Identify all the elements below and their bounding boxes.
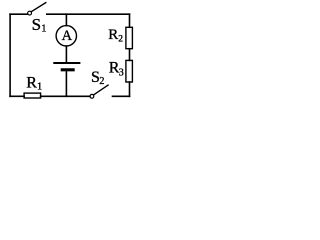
wire: R2 to R3 — [129, 49, 131, 61]
svg-text:R: R — [26, 74, 37, 91]
switch S1 blade — [31, 3, 46, 12]
svg-text:1: 1 — [37, 81, 42, 92]
svg-text:R: R — [108, 27, 118, 43]
switch S2 contact circle — [90, 94, 94, 98]
svg-text:S: S — [32, 15, 41, 34]
svg-text:3: 3 — [119, 68, 124, 79]
battery negative plate — [61, 68, 75, 71]
resistor R2 — [126, 27, 132, 48]
wire: battery to bottom junction — [65, 72, 67, 96]
svg-text:A: A — [62, 28, 73, 44]
switch S1 contact circle — [28, 11, 32, 15]
battery positive plate — [53, 62, 80, 64]
wire: left border — [9, 14, 11, 96]
wire: bottom-left corner to R1 — [10, 95, 24, 97]
resistor R3 — [126, 60, 132, 82]
wire: ammeter to battery — [65, 46, 67, 62]
wire: bottom-right corner to switch S2 — [113, 95, 130, 97]
wire: top-left to switch S1 — [10, 13, 27, 15]
svg-text:1: 1 — [41, 24, 46, 35]
ammeter U1 circle — [56, 26, 76, 46]
wire: right border top to R2 — [129, 14, 131, 27]
svg-text:2: 2 — [99, 76, 104, 87]
wire: switch S1 to top-right corner — [47, 13, 130, 15]
wire: R3 to bottom-right corner — [129, 82, 131, 96]
svg-text:2: 2 — [118, 35, 123, 45]
switch S2 blade — [94, 85, 108, 95]
wire: top junction to ammeter — [65, 14, 67, 25]
wire: R1 to switch S2 — [41, 95, 90, 97]
background — [0, 0, 137, 104]
resistor R1 — [24, 93, 40, 98]
